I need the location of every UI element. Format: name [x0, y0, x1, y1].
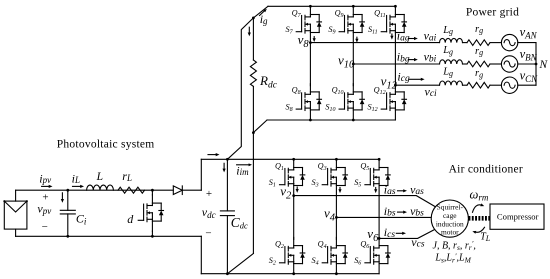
transistor Q11: [368, 6, 407, 42]
svg-text:S1: S1: [269, 178, 276, 189]
svg-text:Q11: Q11: [374, 8, 385, 18]
transistor Q1: [269, 159, 305, 195]
compressor: [490, 204, 544, 229]
wire positive DC rail (lower inverter top rail): [201, 153, 379, 159]
label i_bs / v_bs: [384, 204, 424, 219]
resistor r_g phase A: [467, 24, 490, 46]
svg-text:rL: rL: [122, 169, 132, 183]
svg-text:+: +: [206, 188, 212, 200]
svg-text:Q2: Q2: [275, 239, 284, 250]
node lower rail leg c: [378, 158, 381, 161]
svg-text:S6: S6: [354, 256, 361, 267]
label i_g: [260, 9, 269, 26]
label i_cg / v_ci: [397, 69, 437, 99]
transistor Q7: [286, 6, 322, 42]
svg-text:v2: v2: [280, 184, 292, 202]
wire leg c mid: [394, 43, 396, 86]
svg-text:vCN: vCN: [520, 69, 539, 84]
svg-text:Q3: Q3: [318, 161, 327, 172]
wire neutral vertical: [535, 43, 537, 86]
capacitor C_i: [60, 190, 87, 236]
node PV-Ci junction top: [66, 189, 69, 192]
arrow leg c current (top inverter): [390, 34, 393, 40]
transistor Q4: [312, 237, 348, 273]
resistor R_dc: [248, 18, 278, 254]
svg-text:S2: S2: [269, 256, 276, 267]
svg-text:vai: vai: [424, 29, 437, 44]
label i_L: [72, 171, 84, 188]
node top rail leg b: [352, 5, 355, 8]
node boost source junction: [151, 235, 154, 238]
transistor Q3: [312, 159, 348, 195]
wire lower inverter negative rail: [201, 273, 379, 275]
transistor Q10: [325, 84, 364, 120]
svg-text:iL: iL: [72, 171, 80, 185]
label i_ag / v_ai: [397, 29, 437, 44]
svg-text:ωrm: ωrm: [470, 188, 489, 203]
AC source v_CN: [501, 69, 538, 94]
wire top inverter negative rail: [267, 119, 395, 121]
svg-text:d: d: [127, 212, 134, 226]
node v-node leg c (lower inverter): [378, 237, 381, 240]
arrow leg b current (lower inverter): [338, 188, 341, 194]
svg-text:v10: v10: [338, 53, 355, 71]
svg-text:Q7: Q7: [292, 8, 302, 18]
transistor Q6: [354, 237, 390, 273]
node boost drain junction: [151, 189, 154, 192]
wire phase A source-N: [518, 42, 536, 44]
wire leg a mid: [309, 43, 311, 86]
wire PV bottom: [16, 235, 202, 237]
svg-text:N: N: [539, 59, 549, 71]
wire phase c to motor: [379, 229, 436, 239]
wire phase C source-N: [518, 84, 536, 86]
node i_g junction: [252, 17, 255, 20]
svg-text:J, B, rs, rr′,: J, B, rs, rr′,: [433, 239, 476, 252]
node lower rail leg b: [335, 158, 338, 161]
svg-text:iim: iim: [236, 163, 249, 177]
wire lower leg a mid: [293, 196, 295, 240]
svg-text:v4: v4: [324, 206, 336, 224]
node top rail leg a: [309, 5, 312, 8]
label i_cs / v_cs: [384, 225, 425, 250]
label omega_rm with arrow: [470, 188, 489, 213]
node DC-link junction bottom: [226, 272, 229, 275]
resistor r_L: [118, 169, 145, 193]
node v-node leg b (lower inverter): [335, 216, 338, 219]
label v2: [280, 184, 292, 202]
node lower bottom rail leg b: [335, 272, 338, 275]
svg-text:ias: ias: [384, 182, 396, 197]
svg-text:Q1: Q1: [275, 161, 284, 172]
svg-text:vcs: vcs: [411, 235, 425, 250]
svg-text:S9: S9: [328, 25, 335, 36]
svg-text:Q4: Q4: [318, 239, 327, 250]
inductor L_g phase A: [440, 25, 463, 43]
svg-text:S3: S3: [312, 178, 319, 189]
node N: [535, 59, 549, 71]
wire phase B rg-source: [490, 63, 501, 65]
svg-text:vbi: vbi: [424, 50, 437, 65]
wire top inverter positive rail: [268, 5, 395, 7]
wire phase B Lg-rg: [463, 63, 468, 65]
motor (squirrel-cage induction motor): [431, 200, 468, 237]
svg-text:ibg: ibg: [397, 50, 410, 65]
node top rail leg c: [394, 5, 397, 8]
svg-text:vbs: vbs: [410, 204, 424, 219]
svg-text:Compressor: Compressor: [497, 212, 539, 222]
svg-text:rg: rg: [475, 68, 483, 79]
label v4: [324, 206, 336, 224]
svg-text:Lg: Lg: [442, 25, 453, 36]
PV panel: [3, 190, 28, 236]
wire diagonal to top inverter bottom rail: [253, 120, 267, 133]
wire phase a to grid: [310, 42, 439, 44]
wire phase C Lg-rg: [463, 84, 468, 86]
node negative rail junction: [252, 131, 255, 134]
svg-text:Ci: Ci: [76, 211, 87, 226]
wire lower leg b mid: [335, 196, 337, 240]
svg-text:Lg: Lg: [442, 45, 453, 56]
node lower rail leg a: [292, 158, 295, 161]
wire PV top: [16, 189, 174, 191]
label v_dc: [202, 188, 216, 240]
wire phase C rg-source: [490, 84, 501, 86]
AC source v_AN: [501, 25, 537, 51]
inductor L_g phase C: [440, 67, 463, 86]
svg-text:Air conditioner: Air conditioner: [449, 163, 523, 175]
motor shaft: [469, 216, 490, 221]
inductor L: [87, 171, 114, 190]
label i_bg / v_bi: [397, 50, 437, 65]
svg-text:TL: TL: [480, 232, 491, 244]
svg-text:vBN: vBN: [520, 47, 538, 62]
svg-text:Q8: Q8: [292, 86, 301, 97]
svg-text:S11: S11: [368, 25, 378, 36]
svg-text:Photovoltaic system: Photovoltaic system: [57, 139, 155, 151]
svg-text:vci: vci: [425, 84, 438, 99]
svg-text:iag: iag: [397, 29, 410, 44]
wire R_dc to negative rail: [227, 254, 253, 274]
svg-text:rg: rg: [475, 46, 483, 57]
arrow leg a current (top inverter): [313, 37, 316, 42]
svg-text:+: +: [42, 191, 48, 203]
svg-text:ibs: ibs: [384, 204, 396, 219]
svg-text:S4: S4: [312, 256, 319, 267]
label v12: [381, 73, 398, 91]
svg-text:S12: S12: [368, 102, 378, 113]
svg-text:L: L: [96, 171, 103, 183]
svg-text:ipv: ipv: [39, 171, 51, 185]
label i_im: [236, 163, 252, 177]
capacitor C_dc: [220, 159, 248, 273]
label i_pv: [39, 171, 52, 188]
transistor Q8: [286, 84, 322, 120]
resistor r_g phase C: [467, 68, 490, 88]
svg-text:Q10: Q10: [332, 86, 344, 97]
svg-text:Lg: Lg: [442, 67, 453, 78]
wire phase c to grid: [395, 84, 439, 86]
wire v_dc jog down: [200, 236, 202, 273]
wire leg b mid: [352, 43, 354, 86]
transistor Q12: [368, 84, 407, 120]
wire v_dc jog up: [200, 159, 202, 190]
svg-text:Rdc: Rdc: [259, 73, 278, 90]
svg-text:v6: v6: [367, 226, 379, 244]
wire phase A rg-source: [490, 42, 501, 44]
arrow leg b current (top inverter): [355, 37, 358, 42]
svg-text:S8: S8: [286, 102, 293, 113]
svg-text:−: −: [42, 221, 48, 233]
svg-text:rg: rg: [475, 24, 483, 35]
transistor Q2: [269, 237, 305, 273]
diode D boost: [173, 186, 201, 195]
transistor Q5: [354, 159, 390, 195]
svg-text:Ls,Lr′,LM: Ls,Lr′,LM: [434, 252, 471, 265]
node v-node leg c (top inverter): [394, 84, 397, 87]
wire phase A Lg-rg: [463, 42, 468, 44]
svg-text:icg: icg: [397, 69, 410, 84]
svg-text:motor: motor: [441, 228, 459, 237]
label v10: [338, 53, 355, 71]
node v-node leg a (top inverter): [309, 41, 312, 44]
svg-text:ics: ics: [384, 225, 396, 240]
svg-text:Q9: Q9: [335, 8, 344, 18]
svg-text:S5: S5: [354, 178, 361, 189]
wire phase b to grid: [353, 63, 439, 65]
inductor L_g phase B: [440, 45, 463, 64]
label i_as / v_as: [384, 182, 424, 197]
svg-text:vas: vas: [410, 182, 424, 197]
resistor r_g phase B: [467, 46, 490, 67]
wire DC bus diagonal to top inverter: [227, 6, 268, 159]
node v-node leg a (lower inverter): [292, 194, 295, 197]
wire phase a to motor: [294, 196, 435, 207]
node bottom rail leg a: [309, 119, 312, 122]
transistor Q9: [328, 6, 364, 42]
node bottom rail leg b: [352, 119, 355, 122]
wire lower leg c mid: [378, 196, 380, 240]
svg-text:v8: v8: [298, 32, 310, 50]
label v8: [298, 32, 310, 50]
wire phase B source-N: [518, 63, 536, 65]
AC source v_BN: [501, 47, 537, 72]
svg-text:vpv: vpv: [37, 201, 51, 216]
svg-text:vAN: vAN: [520, 25, 538, 40]
svg-text:S7: S7: [286, 25, 294, 36]
svg-text:Cdc: Cdc: [231, 215, 248, 231]
label v_pv: [37, 191, 51, 232]
label T_L with arrow: [472, 227, 490, 243]
svg-text:vdc: vdc: [202, 205, 216, 220]
node v-node leg b (top inverter): [352, 63, 355, 66]
wire phase b to motor: [336, 216, 431, 218]
arrow leg c current (lower inverter): [374, 188, 377, 194]
node PV-Ci junction bottom: [66, 235, 69, 238]
arrow leg a current (lower inverter): [296, 187, 299, 193]
transistor d (boost switch): [127, 190, 163, 236]
svg-text:Power grid: Power grid: [466, 7, 519, 19]
svg-text:S10: S10: [325, 102, 335, 113]
node DC-link junction top: [226, 158, 229, 161]
label v6: [367, 226, 379, 244]
svg-text:−: −: [205, 228, 211, 240]
node lower bottom rail leg a: [292, 272, 295, 275]
label motor parameters: [433, 239, 476, 264]
svg-text:Q5: Q5: [360, 161, 369, 172]
